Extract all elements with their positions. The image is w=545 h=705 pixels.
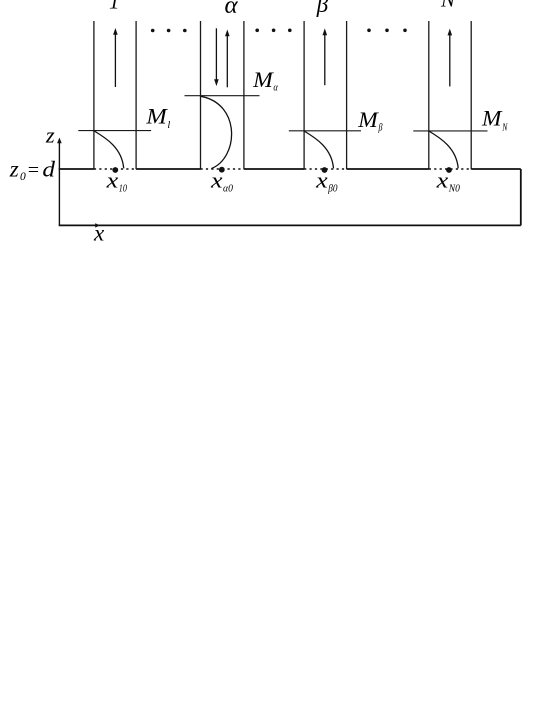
profile curve channel 1 [94, 131, 123, 168]
profile curve channel N [429, 131, 458, 168]
node x-beta0 dot [322, 167, 328, 173]
channel beta right wall [346, 21, 348, 169]
channel N right wall [470, 21, 472, 169]
dotted baseline inside channel N [429, 168, 471, 170]
film bottom line (x axis) [59, 224, 521, 226]
level line M1 [78, 130, 151, 132]
node x-alpha0 dot [219, 167, 225, 173]
dotted baseline inside channel beta [304, 168, 347, 170]
svg-text:z: z [45, 123, 55, 148]
ellipsis dots between channel alpha and beta [255, 29, 291, 33]
surface baseline z0=d solid segments [59, 168, 521, 170]
level line M-beta [289, 130, 361, 132]
svg-text:α: α [225, 0, 239, 19]
magnetization arrow channel alpha (down) [214, 28, 219, 86]
channel 1 left wall [93, 21, 95, 169]
svg-text:z0=d: z0=d [9, 156, 56, 183]
channel alpha left wall [200, 21, 202, 169]
svg-text:x: x [93, 220, 105, 245]
dotted baseline inside channel alpha [201, 168, 244, 170]
channel beta left wall [303, 21, 305, 169]
level line M-alpha [185, 95, 260, 97]
dotted baseline inside channel 1 [94, 168, 136, 170]
ellipsis dots between channel beta and N [367, 29, 407, 33]
level line M-N [413, 130, 487, 132]
x axis arrowhead [95, 223, 100, 227]
profile curve channel alpha [201, 96, 232, 168]
magnetization arrow channel beta (up) [323, 28, 328, 85]
svg-text:Ml: Ml [145, 104, 170, 131]
svg-text:β: β [316, 0, 329, 17]
magnetization arrow channel 1 (up) [113, 28, 118, 87]
channel 1 right wall [135, 21, 137, 169]
film right edge [520, 169, 522, 225]
node x10 dot [112, 167, 118, 173]
magnetization arrow channel N (up) [448, 29, 453, 87]
profile curve channel beta [304, 131, 333, 168]
z axis arrowhead [57, 138, 62, 144]
svg-text:N: N [440, 0, 456, 11]
channel alpha right wall [243, 21, 245, 169]
magnetization arrow channel alpha (up) [225, 30, 230, 88]
channel N left wall [428, 21, 430, 169]
ellipsis dots between channel 1 and alpha [151, 29, 187, 33]
svg-text:1: 1 [109, 0, 120, 13]
node x-N0 dot [446, 167, 452, 173]
z axis line (left edge of film box) [58, 142, 60, 226]
